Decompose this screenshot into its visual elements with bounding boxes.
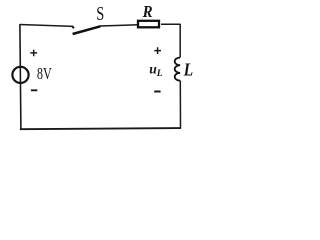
- wire left vertical: [20, 24, 21, 129]
- inductor L coil: [175, 58, 181, 81]
- svg-text:8V: 8V: [37, 65, 52, 83]
- label - polarity of inductor: [154, 91, 160, 93]
- wire switch to resistor: [100, 25, 139, 26]
- label + polarity of source: [30, 50, 37, 57]
- wire top-left horizontal: [20, 25, 74, 27]
- switch left contact stub: [72, 26, 74, 28]
- svg-text:S: S: [96, 3, 104, 25]
- label - polarity of source: [31, 89, 37, 91]
- svg-text:L: L: [183, 60, 194, 80]
- switch S blade: [73, 26, 101, 34]
- label + polarity of inductor: [154, 47, 161, 54]
- svg-text:uL: uL: [149, 61, 163, 78]
- voltage source circle: [12, 67, 28, 83]
- wire bottom horizontal: [20, 128, 181, 129]
- wire resistor to top-right corner: [161, 23, 180, 25]
- wire right vertical lower: [179, 81, 181, 129]
- resistor R body: [138, 21, 159, 28]
- svg-text:R: R: [142, 3, 153, 21]
- wire right vertical upper: [179, 24, 181, 58]
